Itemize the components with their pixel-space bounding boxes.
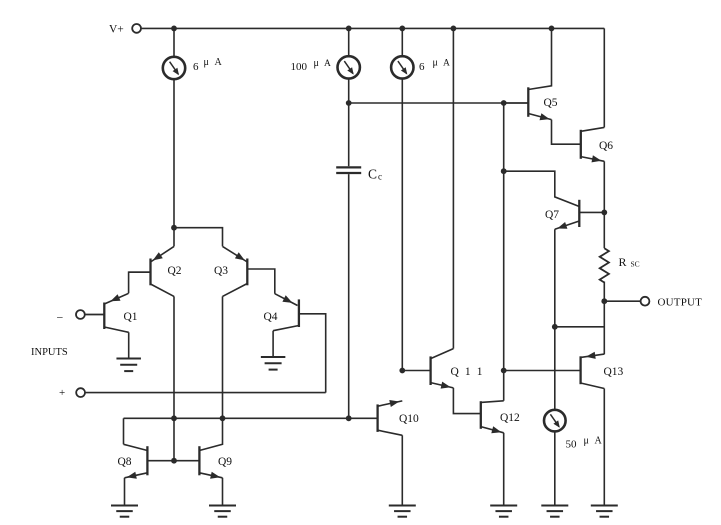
wire node B to Cc [348,103,350,166]
terminal non-inverting input [76,388,85,397]
label 6 uA (I1) [193,57,223,73]
wire node C down to Q12 collector [503,103,505,401]
label Q8 [118,456,132,468]
current source I1 6uA [163,57,185,79]
transistor Q1 [85,293,129,332]
ground (Q9) [209,506,236,517]
svg-text:6: 6 [193,61,199,73]
node mirror bus junction x=222.5 [220,415,226,421]
wire plus input to Q4 base [85,392,326,394]
svg-text:C: C [368,167,377,182]
label Q4 [264,311,278,323]
wire Q4 collector to ground [272,331,274,357]
label Q1 [124,311,138,323]
svg-text:A: A [324,59,331,69]
wire to OUTPUT terminal [604,300,640,302]
svg-text:Q13: Q13 [604,366,624,378]
wire V+ rail [141,27,604,29]
node output-stage junction [552,324,558,330]
label 100 uA (I2) [291,58,332,73]
svg-text:Q 1 1: Q 1 1 [451,366,485,378]
transistor Q6 [581,127,605,162]
label Cc [368,167,382,182]
label V+ [109,24,124,36]
wire I1 to input-stage node [173,79,175,228]
transistor Q3 [223,246,275,296]
svg-text:Q3: Q3 [214,265,228,277]
resistor RSC [600,248,609,282]
wire node to Q2 emitter [173,228,175,247]
wire to Q13 base [504,370,581,372]
label Q5 [544,97,558,109]
svg-text:6: 6 [419,61,425,73]
node Q12 collector / Q13 base junction [501,368,507,374]
node V+ rail junction x=174 [171,26,177,32]
wire Q11 emitter to Q12 base [453,388,480,414]
svg-text:Q10: Q10 [399,413,419,425]
capacitor Cc [336,167,361,173]
label plus [59,387,65,399]
svg-text:μ: μ [204,57,209,68]
svg-text:μ: μ [314,58,319,69]
svg-text:SC: SC [631,260,640,269]
label minus [57,311,64,325]
svg-text:μ: μ [433,58,438,69]
wire Q1 collector to ground [128,332,130,358]
label Q2 [168,265,182,277]
wire V+ to I1 [173,28,175,56]
transistor Q4 [273,295,326,392]
label Q13 [604,366,624,378]
svg-text:−: − [57,311,64,325]
wire V+ rail to Q11 collector [452,28,454,348]
node Q11 base junction [399,368,405,374]
ground (Q10) [389,506,416,517]
wire Q2 collector down to Q8/Q9 base [173,296,175,460]
wire V+ to I2 [348,28,350,56]
transistor Q12 [481,401,504,433]
svg-text:+: + [59,387,65,399]
node input stage emitters [171,225,177,231]
wire Q9 emitter to ground [222,478,224,506]
wire Cc to mirror node [348,174,350,418]
svg-text:Q8: Q8 [118,456,132,468]
current source I4 50uA [544,410,566,432]
current source I3 6uA [391,56,413,78]
wire minus input to Q1 base [85,314,104,316]
wire to output column [555,326,605,328]
svg-text:Q7: Q7 [545,209,559,221]
transistor Q2 [129,246,174,296]
wire node to Q3 emitter [174,228,223,247]
svg-text:100: 100 [291,61,308,73]
transistor Q9 [174,418,223,479]
node V+ rail junction x=402.3 [399,26,405,32]
transistor Q13 [581,352,605,389]
wire node B to Q5 base [349,102,529,104]
wire Q10 collector to ground [401,435,403,506]
node mirror bus junction x=174 [171,415,177,421]
wire Q2 base to Q1 emitter [129,272,151,293]
node V+ rail junction x=551.5 [549,26,555,32]
wire Q7 emitter down to I4 [554,229,556,410]
svg-text:A: A [443,59,450,69]
wire right rail drop to Q6 collector [603,28,605,127]
node mirror bus junction x=348.7 [346,415,352,421]
wire Q3 collector down to mirror wire [222,296,224,418]
svg-text:Q5: Q5 [544,97,558,109]
label 6 uA (I3) [419,58,450,74]
node V+ rail junction x=348.7 [346,26,352,32]
node C lower junction [501,168,507,174]
transistor Q10 [378,400,403,435]
svg-text:Q12: Q12 [500,412,520,424]
svg-text:V+: V+ [109,24,124,36]
label RSC [619,255,640,269]
svg-text:A: A [595,436,603,447]
svg-text:Q2: Q2 [168,265,182,277]
svg-text:A: A [215,57,223,68]
terminal inverting input [76,310,85,319]
svg-text:INPUTS: INPUTS [31,347,68,358]
transistor Q7 [555,200,605,230]
wire Q3 base to Q4 emitter [275,294,298,306]
label Q3 [214,265,228,277]
wire I3 to Q11 base node [401,78,403,370]
label Q6 [599,140,613,152]
ground (Q13) [591,506,618,517]
wire current-mirror bus [124,417,378,419]
node OUTPUT [601,298,607,304]
label Q7 [545,209,559,221]
wire Q13 collector to ground [603,389,605,506]
node V+ rail junction x=453.4 [451,26,457,32]
ground (Q1) [116,359,141,372]
node Q7 base junction [601,210,607,216]
wire Q8 emitter to ground [124,478,126,506]
node B (Cc top) [346,100,352,106]
wire I4 to ground [554,431,556,505]
terminal OUTPUT [641,297,650,306]
wire Q12 emitter to ground [503,433,505,506]
svg-text:Q1: Q1 [124,311,138,323]
svg-text:OUTPUT: OUTPUT [658,297,703,309]
svg-text:R: R [619,255,627,269]
wire bus to Q8 collector [123,418,125,444]
svg-text:Q9: Q9 [218,456,232,468]
transistor Q5 [504,28,552,120]
label Q11 [451,366,485,378]
wire Q6 emitter down to Rsc [603,161,605,248]
svg-text:50: 50 [566,439,578,451]
wire Q5 emitter to Q6 base [552,120,581,145]
wire V+ to I3 [401,28,403,56]
wire Rsc to Q13 emitter [603,282,605,355]
label 50 uA (I4) [566,436,603,451]
label INPUTS [31,347,68,358]
wire I2 to node B [348,79,350,103]
svg-text:c: c [378,172,382,182]
label OUTPUT [658,297,703,309]
label Q9 [218,456,232,468]
node C [501,100,507,106]
label Q10 [399,413,419,425]
svg-text:Q4: Q4 [264,311,278,323]
label Q12 [500,412,520,424]
transistor Q8 [124,444,175,479]
node Q8/Q9 base junction [171,458,177,464]
svg-text:Q6: Q6 [599,140,613,152]
current source I2 100uA [338,56,360,78]
svg-text:μ: μ [584,436,589,447]
transistor Q11 [402,349,453,389]
ground (Q4) [261,357,286,370]
ground (I4) [541,506,568,517]
terminal V+ [132,24,141,33]
wire node C to Q7 collector [504,171,580,206]
ground (Q12) [490,506,517,517]
ground (Q8) [111,506,138,517]
